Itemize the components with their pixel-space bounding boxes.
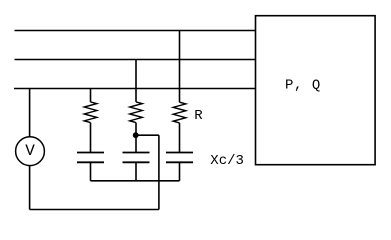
wire capacitor 3 to common bus <box>179 162 181 181</box>
capacitor C1 bottom plate <box>77 161 104 163</box>
wire node to vertical drop <box>136 134 159 136</box>
wire resistor 3 to capacitor 3 <box>179 123 181 153</box>
svg-text:P, Q: P, Q <box>285 78 321 94</box>
svg-text:R: R <box>194 108 203 124</box>
wire capacitor 1 to common bus <box>90 162 92 181</box>
wire capacitor common bus <box>91 180 180 182</box>
voltmeter V <box>16 137 45 166</box>
wire phase line C (bottom bus) <box>14 88 256 90</box>
wire resistor 2 to node <box>135 123 137 136</box>
wire resistor 1 to capacitor 1 <box>90 123 92 153</box>
wire tap from phase B to resistor branch 2 <box>135 60 137 102</box>
wire bottom return from voltmeter to node vertical <box>30 209 159 211</box>
wire tap from phase A to resistor branch 3 <box>179 31 181 103</box>
load box P,Q <box>256 16 376 165</box>
capacitor C3 top plate <box>166 152 193 154</box>
resistor branch 2 <box>130 102 143 123</box>
resistor branch 1 <box>84 102 97 123</box>
capacitor C1 top plate <box>77 152 104 154</box>
wire node to capacitor 2 <box>135 135 137 152</box>
wire tap from phase C to voltmeter <box>29 89 31 137</box>
wire capacitor 2 to common bus <box>135 162 137 181</box>
capacitor C2 top plate <box>123 152 150 154</box>
node junction dot <box>133 132 139 138</box>
wire tap from phase C to resistor branch 1 <box>90 89 92 102</box>
wire phase line A (top bus) <box>15 30 256 32</box>
resistor branch 3 R <box>173 102 186 123</box>
svg-text:V: V <box>25 142 35 160</box>
wire vertical drop to bottom return <box>158 135 160 209</box>
svg-text:Xc/3: Xc/3 <box>210 153 244 169</box>
wire voltmeter bottom lead <box>29 166 31 210</box>
capacitor C3 bottom plate <box>166 161 193 163</box>
wire phase line B (middle bus) <box>15 59 256 61</box>
capacitor C2 bottom plate <box>123 161 150 163</box>
